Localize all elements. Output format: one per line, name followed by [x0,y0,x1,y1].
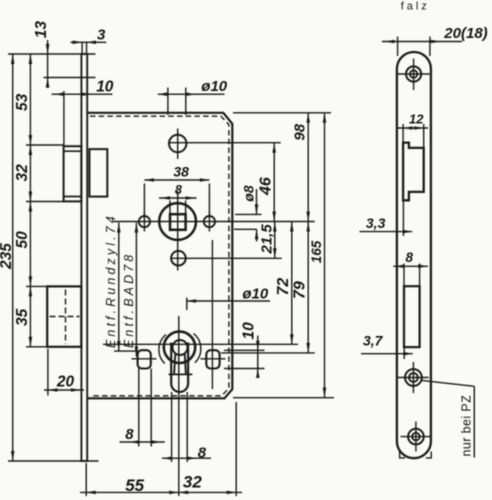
svg-text:50: 50 [14,231,31,249]
svg-text:3,3: 3,3 [366,215,386,231]
left slot [138,350,151,368]
svg-text:ø8: ø8 [240,185,256,202]
svg-text:Entf.BAD78: Entf.BAD78 [122,252,136,348]
dim 13 [47,40,49,88]
keyhole inner stem [174,354,186,375]
dim 235 [12,54,14,461]
svg-text:10: 10 [241,322,258,340]
svg-text:20(18): 20(18) [443,25,487,42]
deadbolt head (front) [47,286,81,346]
svg-text:79: 79 [292,281,309,299]
top screw hole [406,66,421,81]
faceplate side view (stadium) [397,52,431,458]
deadbolt cutout [404,286,420,347]
dim 38 [144,179,209,181]
spindle vertical center line [177,191,179,271]
faceplate [81,54,87,461]
ext lines slot edges down [138,369,140,447]
spindle horizontal center line [113,221,314,223]
latch head (front) [64,146,82,201]
svg-text:13: 13 [33,21,50,39]
svg-text:32: 32 [183,473,202,492]
svg-text:35: 35 [14,308,31,326]
keyhole outer stem [171,343,188,392]
o8 circle below spindle [171,251,186,266]
dim 20(18) [382,41,462,43]
svg-text:falz: falz [401,1,430,13]
dim 8 slot width [120,441,165,443]
ext line top hole center (46 ref) [168,142,281,144]
svg-text:55: 55 [125,476,144,495]
dim 55 [80,491,179,493]
keyhole inner circle [173,340,188,355]
svg-text:3: 3 [97,27,106,44]
keyhole side rotation arcs [159,335,166,364]
lock case outline [87,113,232,399]
right small circle [204,216,215,227]
slot center lines [132,358,157,360]
svg-text:Entf.Rundzyl.74: Entf.Rundzyl.74 [104,213,118,348]
ext plate back down [85,463,87,496]
svg-text:98: 98 [292,123,309,140]
svg-text:10: 10 [96,78,114,95]
leader nur bei PZ [422,380,475,386]
dim 21,5 [274,222,276,259]
dim 3 (plate thickness) [71,41,107,43]
dim 10 slots [257,336,259,378]
ext latch bottom [26,201,64,203]
svg-text:235: 235 [0,243,15,270]
ext cylinder center right [103,343,298,345]
svg-text:12: 12 [409,112,424,127]
dim Entf.BAD78 [135,223,137,357]
svg-text:20: 20 [56,374,75,391]
svg-text:8: 8 [175,183,182,197]
svg-text:21,5: 21,5 [259,224,276,255]
lock case hidden dashed outline [90,116,229,396]
ext case top right [233,112,331,114]
ext line 13 ref [44,77,96,79]
ext case bottom right [233,397,334,399]
ext line o8 circle center [171,257,282,259]
svg-text:32: 32 [14,164,31,182]
dim 165 [324,113,326,398]
dim 98 [307,113,309,222]
latch head cap lines [64,150,82,152]
keyhole outer circle [164,332,195,363]
svg-text:38: 38 [173,164,189,180]
top hole center tick [177,129,179,160]
dim 10 latch protrusion [52,93,113,95]
svg-text:nur bei PZ: nur bei PZ [460,395,474,457]
svg-text:3,7: 3,7 [363,333,384,349]
dim 12 [398,127,428,129]
dim 20 deadbolt protrusion [47,349,49,396]
svg-text:72: 72 [275,278,292,296]
faceplate edge extensions above [81,42,83,55]
dim 8 deadbolt cutout [393,265,428,267]
dim 8 square [159,197,197,199]
deadbolt hidden center lines [65,290,67,345]
svg-text:ø10: ø10 [242,285,269,302]
svg-text:ø10: ø10 [201,78,228,95]
ext case right down [235,402,237,496]
spindle square 8mm [170,214,186,230]
dim 79 [307,222,309,353]
bottom corner ticks [400,452,405,458]
dim o10 top hole [158,93,225,95]
PZ screw hole [405,369,422,386]
ext line bottom of plate [8,460,99,462]
right slot axis line [211,240,213,389]
bottom screw hole [408,429,424,445]
svg-text:53: 53 [14,93,31,111]
ext deadbolt top [26,285,47,287]
ext lines keyhole stem down [171,392,173,462]
dim 72 [291,222,293,345]
dim Entf.Rundzyl.74 [118,223,120,352]
ext deadbolt bottom [26,346,47,348]
latch cutout [403,143,424,201]
latch inner box [89,149,107,197]
ext 79 ref [221,352,315,354]
spindle follower circle [159,203,196,240]
ext latch top [26,144,64,146]
svg-text:46: 46 [258,177,275,196]
ext line top of plate [8,53,96,55]
svg-text:8: 8 [406,250,414,265]
svg-text:8: 8 [198,444,207,461]
dim 46 [273,143,275,222]
left small circle [139,216,150,227]
top hole o10 [169,135,186,152]
dim 32 bottom [179,491,242,493]
dim chain 53 32 50 35 line [29,54,31,347]
svg-text:8: 8 [125,426,134,443]
right slot [206,350,219,368]
keyhole vertical center line [178,316,180,496]
svg-text:165: 165 [309,240,324,263]
dim 8 keyhole width [162,457,211,459]
